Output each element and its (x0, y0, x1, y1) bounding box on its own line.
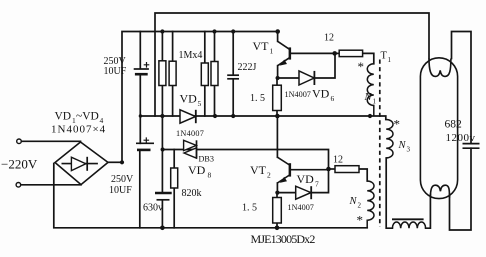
svg-text:1: 1 (388, 56, 392, 64)
svg-text:10UF: 10UF (109, 185, 132, 196)
svg-text:2: 2 (358, 201, 362, 209)
svg-text:N: N (398, 140, 407, 151)
svg-text:2: 2 (267, 171, 271, 180)
svg-text:1. 5: 1. 5 (250, 93, 265, 104)
svg-text:222J: 222J (238, 62, 257, 73)
svg-text:*: * (357, 213, 364, 228)
svg-text:250V: 250V (111, 174, 134, 185)
svg-text:VD: VD (180, 92, 198, 106)
svg-text:1Mx4: 1Mx4 (179, 50, 203, 61)
svg-text:DB3: DB3 (199, 154, 214, 163)
svg-text:1N4007×4: 1N4007×4 (51, 124, 106, 136)
svg-text:1: 1 (270, 47, 274, 56)
svg-text:1. 5: 1. 5 (242, 202, 257, 213)
svg-text:12: 12 (333, 155, 343, 166)
svg-text:820k: 820k (182, 188, 202, 199)
svg-text:−220V: −220V (1, 157, 38, 172)
svg-text:VT: VT (253, 39, 270, 53)
svg-text:8: 8 (208, 171, 212, 180)
svg-text:6: 6 (331, 94, 335, 103)
svg-text:MJE13005Dx2: MJE13005Dx2 (251, 232, 316, 246)
svg-text:1N4007: 1N4007 (288, 203, 314, 212)
svg-text:1N4007: 1N4007 (176, 129, 204, 138)
svg-text:VD: VD (297, 172, 315, 186)
svg-text:*: * (358, 59, 365, 74)
svg-text:*: * (394, 117, 401, 132)
svg-text:7: 7 (315, 180, 319, 189)
svg-text:N: N (349, 196, 358, 207)
svg-text:VD: VD (188, 163, 206, 177)
svg-text:T: T (381, 51, 388, 62)
svg-text:630v: 630v (143, 203, 163, 214)
svg-text:VD: VD (312, 87, 330, 101)
svg-text:1: 1 (373, 97, 377, 105)
svg-text:682: 682 (445, 119, 463, 131)
svg-text:1200v: 1200v (446, 132, 476, 144)
svg-text:VD: VD (55, 111, 72, 123)
svg-text:VT: VT (250, 163, 267, 177)
svg-text:3: 3 (407, 146, 411, 154)
svg-text:12: 12 (324, 32, 334, 43)
svg-text:1N4007: 1N4007 (285, 90, 311, 99)
svg-text:5: 5 (198, 99, 202, 108)
svg-text:10UF: 10UF (104, 66, 127, 77)
svg-text:~VD: ~VD (76, 111, 99, 123)
svg-text:N: N (364, 92, 373, 103)
